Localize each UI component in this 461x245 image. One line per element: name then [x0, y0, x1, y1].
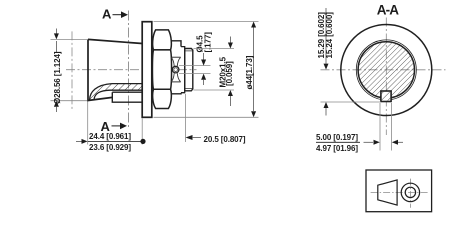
dimension 24.4 / 23.6 with shared-origin dot — [76, 102, 146, 152]
A-A centerline horizontal — [321, 69, 446, 71]
svg-text:A: A — [102, 7, 112, 22]
dimension M20x1.5 [0.059] — [194, 37, 235, 107]
svg-text:15.24 [0.600]: 15.24 [0.600] — [325, 12, 334, 59]
centerline vertical (cable axis) — [71, 31, 73, 109]
dimension 15.29 / 15.24 — [317, 8, 381, 116]
dimension ø44 [1.73] — [154, 22, 259, 118]
collar (rear hex) behind nut — [171, 41, 181, 94]
flange (side view) — [142, 22, 152, 118]
svg-text:20.5 [0.807]: 20.5 [0.807] — [204, 135, 246, 144]
shaft bore hatched disc — [356, 40, 416, 100]
dimension Ø28.56 [1.124] — [51, 29, 88, 113]
dimension Ø4.5 [.177] — [179, 32, 213, 85]
dimension 20.5 [0.807] — [186, 94, 246, 144]
keyway — [381, 91, 391, 102]
svg-text:Ø28.56 [1.124]: Ø28.56 [1.124] — [53, 51, 62, 104]
svg-text:[0.059]: [0.059] — [225, 61, 234, 86]
horn tube (hatched band) — [90, 84, 143, 100]
svg-text:ø44[1.73]: ø44[1.73] — [245, 55, 254, 89]
svg-text:[.177]: [.177] — [204, 32, 213, 53]
svg-text:4.97 [01.96]: 4.97 [01.96] — [316, 144, 358, 153]
threaded section M20x1.5 — [185, 49, 193, 91]
chamfer step between collar and thread — [181, 47, 185, 93]
cone body outline — [88, 39, 142, 100]
section label A bottom — [101, 119, 128, 134]
svg-text:24.4 [0.961]: 24.4 [0.961] — [89, 132, 131, 141]
svg-text:A-A: A-A — [377, 3, 399, 18]
stem rectangle under horn — [112, 92, 142, 102]
third-angle projection symbol box — [366, 170, 432, 212]
section label A top — [102, 7, 128, 22]
outer flange circle ø44 — [341, 25, 432, 116]
section line A-A — [128, 11, 130, 130]
dimension 5.00 / 4.97 — [316, 103, 403, 153]
svg-text:23.6 [0.929]: 23.6 [0.929] — [89, 143, 131, 152]
cross hole Ø4.5 on collar — [172, 66, 179, 73]
A-A centerline vertical — [385, 18, 387, 136]
hex nut (side view, three facets) — [152, 30, 171, 109]
svg-text:5.00 [0.197]: 5.00 [0.197] — [316, 133, 358, 142]
centerline horizontal of left view — [66, 69, 197, 71]
